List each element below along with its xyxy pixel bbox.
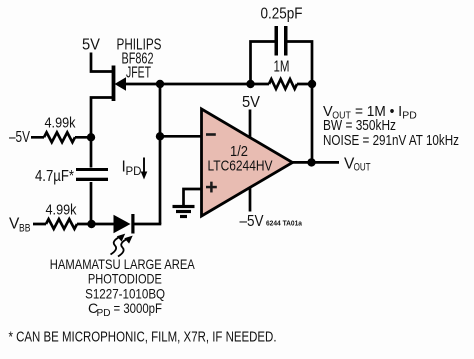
wire 5V to JFET drain [91,53,113,72]
wire JFET gate to summing node [125,83,251,86]
wire plus input to ground [184,189,203,206]
node -5V supply label (op-amp) [240,213,265,230]
svg-text:PD: PD [402,110,417,121]
svg-text:* CAN BE MICROPHONIC, FILM, X7: * CAN BE MICROPHONIC, FILM, X7R, IF NEED… [9,330,277,346]
label 1M [274,59,290,76]
label CPD = 3000pF [88,300,162,319]
op-amp U1 minus input symbol [206,133,216,136]
wire feedback to output node [311,84,314,162]
svg-text:–5V: –5V [240,213,265,230]
wire feedback left branch up [251,42,275,85]
transistor Q1 PHILIPS BF862 JFET channel bar [112,66,116,102]
label BW = 350kHz [323,118,396,134]
node junction dot output [307,158,315,166]
photodiode light arrow 2 [118,236,133,257]
svg-text:= 3000pF: = 3000pF [114,300,163,316]
capacitor 4.7uF plates [76,168,108,181]
node -5V label [9,129,30,146]
node junction dot feedback right [308,80,316,88]
photodiode D1 triangle [114,215,131,233]
resistor 4.99k (VBB) [33,219,92,229]
photodiode light arrow 1 [111,234,126,255]
label 4.7uF* [35,168,74,185]
svg-text:4.99k: 4.99k [45,115,76,132]
svg-text:BB: BB [19,223,31,235]
svg-text:5V: 5V [82,37,101,54]
svg-text:0.25pF: 0.25pF [261,6,303,23]
wire feedback right branch down [288,42,313,85]
label 4.99k (upper) [45,115,76,132]
svg-text:JFET: JFET [126,65,151,82]
photodiode D1 cathode bar [131,214,134,234]
node junction dot gate/summing [156,80,164,88]
svg-text:PD: PD [97,308,111,319]
node VBB label [9,216,31,235]
svg-text:–5V: –5V [9,129,30,146]
wire op-amp positive supply [249,110,252,138]
wire -5V node down to capacitor [90,137,93,167]
svg-text:LTC6244HV: LTC6244HV [208,158,273,175]
wire JFET source to -5V node [91,98,113,139]
transistor Q1 gate arrowhead [115,77,127,90]
svg-text:OUT: OUT [354,162,371,174]
label NOISE = 291nV AT 10kHz [323,133,459,149]
label VOUT = 1M * IPD [323,104,417,121]
svg-text:PD: PD [126,166,142,178]
node junction dot inverting input tap [156,132,164,140]
wire summing node vertical [159,84,162,224]
label 1/2 LTC6244HV [208,143,273,175]
svg-text:NOISE = 291nV AT 10kHz: NOISE = 291nV AT 10kHz [323,133,459,149]
wire to inverting input [160,135,202,138]
svg-text:1M: 1M [274,59,290,76]
svg-text:4.99k: 4.99k [46,202,77,219]
label 4.99k (lower) [46,202,77,219]
wire capacitor to VBB node [90,182,93,224]
op-amp U1 plus input symbol [206,182,217,193]
resistor 4.99k (-5V source bias) [31,132,91,142]
label PHILIPS BF862 JFET [117,37,162,82]
svg-text:6244 TA01a: 6244 TA01a [266,219,303,228]
svg-text:5V: 5V [242,94,261,111]
node VOUT label [344,156,371,174]
node junction dot -5V/source [87,133,95,141]
node 5V supply label (JFET drain) [82,37,101,54]
label footnote [9,330,277,346]
ground symbol [173,205,195,218]
label 0.25pF [261,6,303,23]
wire VBB node to photodiode anode [92,223,114,226]
op-amp U1 1/2 LTC6244HV triangle [202,109,293,216]
svg-text:4.7µF*: 4.7µF* [35,168,74,185]
node 5V supply label (op-amp) [242,94,261,111]
node junction dot VBB [87,220,95,228]
resistor 1M feedback [251,79,313,89]
svg-text:BW = 350kHz: BW = 350kHz [323,118,396,134]
label 6244 TA01a [266,219,303,228]
wire op-amp output [293,161,340,164]
label IPD with current arrow [122,158,148,180]
capacitor 0.25pF plates [275,26,288,56]
wire op-amp negative supply [249,188,252,212]
node junction dot feedback left [246,80,254,88]
svg-text:PHOTODIODE: PHOTODIODE [88,271,162,287]
wire photodiode cathode to summing vertical [134,223,161,226]
label HAMAMATSU LARGE AREA PHOTODIODE S1227-1010BQ [50,256,196,302]
